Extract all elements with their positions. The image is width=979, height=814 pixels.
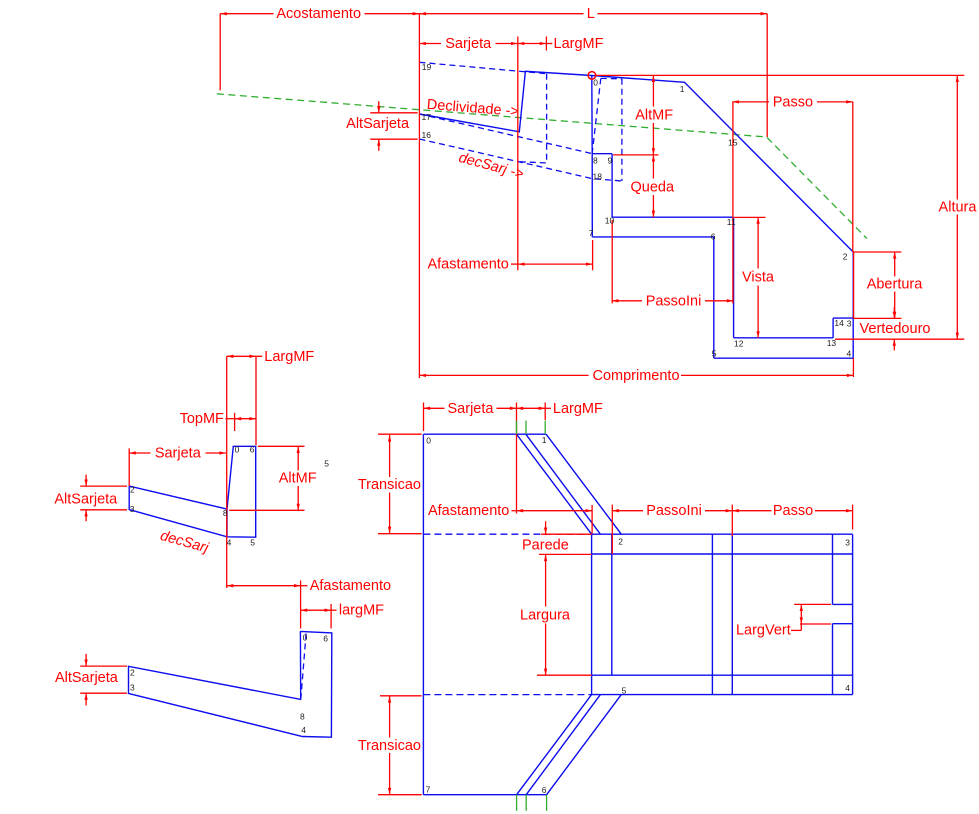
plan vertical at 6-5 <box>711 534 713 694</box>
dim line Largura <box>545 555 547 607</box>
dim line Abertura <box>894 252 896 277</box>
svg-text:10: 10 <box>605 216 615 226</box>
dim line Vista <box>757 217 759 268</box>
svg-text:8: 8 <box>223 508 228 518</box>
wire 8-7 vertical <box>591 154 593 237</box>
dim AltSarjeta d1 top arrow line <box>85 475 87 486</box>
detail2 ext largMF right <box>330 604 332 629</box>
wire 14-3 horizontal <box>833 317 853 319</box>
plan dashed wall line top <box>423 533 591 535</box>
detail1 ext line x=226.7 long <box>226 356 228 588</box>
svg-text:3: 3 <box>845 538 850 548</box>
dim line LargMF detail1 <box>227 355 256 357</box>
plan ext Transicao2 top <box>380 695 422 697</box>
plan transition diagonal 1 bottom <box>517 695 592 795</box>
svg-text:AltSarjeta: AltSarjeta <box>55 670 119 686</box>
svg-text:Abertura: Abertura <box>867 277 924 293</box>
svg-text:6: 6 <box>323 633 328 643</box>
dim line Acostamento <box>220 13 273 15</box>
detail2 ext Afastamento right <box>300 581 302 629</box>
ext line Vista top <box>734 216 765 218</box>
svg-text:AltSarjeta: AltSarjeta <box>54 492 118 508</box>
svg-text:Sarjeta: Sarjeta <box>445 36 492 52</box>
dashed drop MF face <box>592 78 601 153</box>
plan vertical at 11-12 <box>731 534 733 694</box>
plan vertedouro wall upper <box>832 534 834 604</box>
svg-text:LargMF: LargMF <box>553 401 603 417</box>
svg-text:16: 16 <box>422 130 432 140</box>
plan ext PassoIni right / Passo left <box>731 505 733 536</box>
svg-text:6: 6 <box>542 785 547 795</box>
dim line Sarjeta detail1 <box>129 452 150 454</box>
green tick top 2 <box>525 421 527 435</box>
svg-text:4: 4 <box>847 349 852 359</box>
plan transition diagonal 3 top <box>546 434 621 534</box>
plan vertedouro wall lower <box>832 624 834 695</box>
ext line LargMF right <box>545 37 547 51</box>
detail2 ext AltSarjeta top <box>80 665 127 667</box>
svg-text:13: 13 <box>827 338 837 348</box>
detail1 ext LargMF right <box>255 356 257 445</box>
detail1 ext TopMF left <box>234 413 236 431</box>
ext line Passo right <box>852 102 854 252</box>
plan top edge <box>423 433 546 435</box>
ext line over 2-3 edge <box>853 252 855 318</box>
plan left end wall <box>591 534 593 694</box>
svg-text:6: 6 <box>250 445 255 455</box>
ext line Abertura top <box>853 251 901 253</box>
dashed 16-18 gutter bottom line <box>420 139 622 181</box>
svg-text:1: 1 <box>680 84 685 94</box>
svg-text:Altura: Altura <box>939 200 978 216</box>
wire 2-3-4 right vertical <box>852 252 854 358</box>
svg-text:8: 8 <box>300 711 305 721</box>
dashed drop MF top <box>601 77 622 79</box>
svg-text:largMF: largMF <box>339 603 384 619</box>
dim line Sarjeta section <box>419 43 441 45</box>
plan ext LargVert top <box>794 603 831 605</box>
svg-text:5: 5 <box>324 459 329 469</box>
plan transition diagonal 2 top <box>526 434 601 534</box>
wire 12-13 horizontal <box>734 337 834 339</box>
dim line PassoIni section <box>612 300 642 302</box>
plan inner left wall <box>611 534 613 675</box>
dim AltSarjeta section top arrow line <box>378 101 380 113</box>
detail1 ext AltSarjeta bottom <box>80 509 127 511</box>
ext line top horizontal (crest) <box>596 74 965 76</box>
dim line LargMF plan <box>517 407 546 409</box>
green tick bottom 2 <box>525 795 527 811</box>
dim line PassoIni plan <box>612 510 643 512</box>
dim line Queda <box>652 155 654 179</box>
svg-text:TopMF: TopMF <box>180 411 224 427</box>
ext line AltSarjeta bottom <box>370 138 417 140</box>
LargVert leader hook <box>791 629 801 631</box>
ext line Passo left / PassoIni right <box>732 102 734 304</box>
svg-text:L: L <box>587 6 595 22</box>
plan right edge <box>852 534 854 694</box>
dim Parede leader <box>545 521 547 534</box>
svg-text:Passo: Passo <box>773 503 813 519</box>
svg-text:3: 3 <box>847 319 852 329</box>
svg-text:5: 5 <box>712 349 717 359</box>
detail2 ext AltSarjeta bottom <box>80 692 127 694</box>
detail1 ext AltMF top <box>258 445 305 447</box>
dim line AltMF section <box>652 75 654 106</box>
plan ext PassoIni left <box>611 505 613 555</box>
plan transition diagonal 1 top <box>517 434 592 534</box>
dim line TopMF <box>225 418 234 420</box>
plan outer wall bottom <box>592 694 853 696</box>
wire 10-11 horizontal <box>612 216 734 218</box>
plan ext LargVert bottom <box>800 623 831 625</box>
plan ext Largura bottom <box>537 674 592 676</box>
svg-text:2: 2 <box>130 484 135 494</box>
wire 6-5 vertical <box>713 237 715 358</box>
dim line largMF detail <box>301 609 332 611</box>
plan inner wall bottom <box>592 674 853 676</box>
dim line Passo section <box>732 101 769 103</box>
svg-text:Vertedouro: Vertedouro <box>860 321 931 337</box>
green tick bottom 1 <box>516 795 518 811</box>
svg-text:LargVert: LargVert <box>736 623 791 639</box>
svg-text:8: 8 <box>593 156 598 166</box>
detail2 gutter+MF outline <box>129 631 332 737</box>
svg-text:0: 0 <box>235 444 240 454</box>
svg-text:2: 2 <box>843 252 848 262</box>
svg-text:Acostamento: Acostamento <box>276 6 361 22</box>
ext line x=419 full height <box>418 14 420 378</box>
detail1 ext Sarjeta left <box>128 448 130 486</box>
svg-text:Afastamento: Afastamento <box>428 503 509 519</box>
dim line Comprimento <box>419 374 588 376</box>
detail1 wire 8-4 vertical <box>226 509 228 537</box>
wire 5-4 bottom <box>714 357 853 359</box>
svg-text:Largura: Largura <box>520 608 571 624</box>
svg-text:1: 1 <box>542 435 547 445</box>
svg-text:3: 3 <box>130 683 135 693</box>
svg-text:PassoIni: PassoIni <box>646 503 702 519</box>
dim AltSarjeta d2 top arrow line <box>85 654 87 666</box>
svg-text:18: 18 <box>593 171 603 181</box>
svg-text:4: 4 <box>301 725 306 735</box>
svg-text:0: 0 <box>303 633 308 643</box>
ext line Sarjeta right / Afastamento left <box>517 37 519 271</box>
ext line at node 9 level <box>613 154 658 156</box>
plan vertedouro notch bottom <box>833 623 853 625</box>
svg-text:LargMF: LargMF <box>554 36 604 52</box>
dim AltSarjeta d2 bottom arrow line <box>85 693 87 705</box>
detail1 ext AltMF bottom <box>229 509 304 511</box>
dim line Passo plan <box>732 510 771 512</box>
dim Vertedouro top arrow line <box>893 307 895 318</box>
blue profile: 17-gutter-MF top-1-2 <box>420 71 854 252</box>
dim line LargMF section <box>518 43 547 45</box>
dim line L <box>419 13 583 15</box>
dashed 17-8 gutter line <box>420 114 593 154</box>
svg-text:Passo: Passo <box>773 94 813 110</box>
detail2 dashed 0-8 face <box>301 634 306 699</box>
plan transition diagonal 2 bottom <box>526 695 600 795</box>
plan inner wall top <box>592 553 853 555</box>
svg-text:6: 6 <box>711 232 716 242</box>
wire 8-9 horizontal <box>592 153 612 155</box>
plan outer wall top <box>592 533 853 535</box>
svg-text:decSarj: decSarj <box>158 528 210 557</box>
svg-text:14: 14 <box>834 318 844 328</box>
ext line Vertedouro bottom / Altura bottom <box>835 338 964 340</box>
svg-text:AltMF: AltMF <box>635 107 673 123</box>
svg-text:0: 0 <box>593 78 598 88</box>
ext line Abertura bottom / Vertedouro top <box>854 317 902 319</box>
ext line L right <box>766 14 768 137</box>
dashed 19 top edge <box>420 62 547 73</box>
detail1 ext AltSarjeta top <box>80 485 127 487</box>
svg-text:12: 12 <box>734 338 744 348</box>
plan ext Afastamento right <box>591 505 593 534</box>
plan ext Sarjeta right / Afastamento left <box>516 403 518 514</box>
ext line Afastamento right <box>592 240 594 270</box>
dim line Afastamento section <box>511 263 518 265</box>
svg-text:Afastamento: Afastamento <box>310 578 391 594</box>
dashed drop MF right face <box>621 79 623 181</box>
plan ext Parede (under dashed) <box>541 533 592 535</box>
wire 9-10 vertical <box>611 154 613 218</box>
plan ext Passo right <box>852 505 854 530</box>
svg-text:Comprimento: Comprimento <box>592 368 679 384</box>
wire 13-14 vertedouro notch <box>832 318 834 338</box>
plan ext Transicao2 bottom <box>378 794 422 796</box>
dim line Sarjeta plan <box>424 407 445 409</box>
wire 11-12 vertical <box>733 217 735 338</box>
svg-text:19: 19 <box>422 62 432 72</box>
plan vertedouro notch top <box>833 603 853 605</box>
dim AltSarjeta section bottom arrow line <box>378 139 380 151</box>
green dashed natural-ground line <box>217 94 867 239</box>
dim Vertedouro bottom arrow line <box>893 339 895 350</box>
dim line Altura <box>956 75 958 199</box>
plan ext Transicao1 top <box>378 433 422 435</box>
wire 7-6 horizontal <box>592 236 714 238</box>
svg-text:Sarjeta: Sarjeta <box>448 401 495 417</box>
detail1 gutter+MF outline <box>129 446 256 537</box>
svg-text:LargMF: LargMF <box>264 349 314 365</box>
svg-text:AltMF: AltMF <box>279 471 317 487</box>
ext line AltSarjeta top <box>370 112 417 114</box>
svg-text:5: 5 <box>250 537 255 547</box>
svg-text:Declividade ->: Declividade -> <box>426 97 519 120</box>
svg-text:Afastamento: Afastamento <box>427 257 508 273</box>
svg-text:5: 5 <box>622 685 627 695</box>
dim AltSarjeta d1 bottom arrow line <box>85 510 87 521</box>
node 0 circle marker <box>588 72 596 80</box>
ext line PassoIni left <box>611 220 613 304</box>
dashed rear MF bottom <box>520 162 547 163</box>
plan ext Sarjeta left <box>423 403 425 432</box>
green tick top 1 <box>516 421 518 435</box>
svg-text:17: 17 <box>422 112 432 122</box>
dim line LargVert <box>800 604 802 624</box>
svg-text:7: 7 <box>589 228 594 238</box>
svg-text:15: 15 <box>728 138 738 148</box>
dim line Afastamento plan <box>512 510 517 512</box>
svg-text:Transicao: Transicao <box>358 738 421 754</box>
svg-text:Queda: Queda <box>631 179 675 195</box>
svg-text:0: 0 <box>426 436 431 446</box>
plan transition diagonal 3 bottom <box>547 695 622 795</box>
dim line AltMF detail1 <box>297 446 299 470</box>
plan ext Transicao1 bottom <box>378 533 422 535</box>
svg-text:Sarjeta: Sarjeta <box>155 445 202 461</box>
svg-text:Transicao: Transicao <box>358 477 421 493</box>
svg-text:9: 9 <box>608 156 613 166</box>
ext line Comprimento right <box>852 358 854 377</box>
svg-text:Vista: Vista <box>742 270 775 286</box>
svg-text:Parede: Parede <box>522 538 569 554</box>
svg-text:2: 2 <box>130 667 135 677</box>
ext line Acostamento left <box>219 14 221 91</box>
dashed rear MF right face <box>546 74 548 163</box>
svg-text:3: 3 <box>130 504 135 514</box>
plan bottom edge <box>423 794 546 796</box>
green tick top 3 <box>544 421 546 435</box>
svg-text:AltSarjeta: AltSarjeta <box>346 116 410 132</box>
wire 0-8 MF back face <box>591 76 593 154</box>
plan ext LargMF right <box>544 403 546 421</box>
dim line Afastamento detail <box>227 585 301 587</box>
plan ext Largura top <box>539 553 592 555</box>
svg-text:2: 2 <box>618 537 623 547</box>
svg-text:4: 4 <box>845 683 850 693</box>
svg-text:PassoIni: PassoIni <box>646 293 702 309</box>
dim line Transicao upper <box>389 435 391 477</box>
green tick bottom 3 <box>546 795 548 811</box>
svg-text:7: 7 <box>426 785 431 795</box>
plan left edge <box>422 434 424 795</box>
svg-text:11: 11 <box>727 217 736 227</box>
plan dashed wall line bottom <box>423 694 591 696</box>
svg-text:4: 4 <box>227 537 232 547</box>
dim line Transicao lower <box>389 696 391 738</box>
